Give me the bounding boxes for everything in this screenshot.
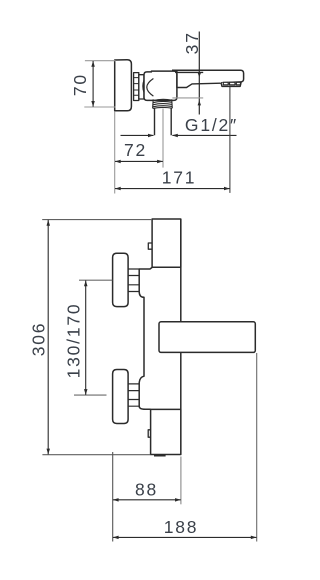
extension line: wall plane (front view) [112,452,114,542]
svg-text:188: 188 [164,517,199,537]
svg-text:306: 306 [29,322,49,357]
thread block upper [127,269,139,292]
dimension 188 [113,536,257,538]
dimension 171 [115,188,230,190]
dimension 72 [115,160,163,162]
extension line: spout front edge down [256,353,258,542]
dimension 37 [198,32,200,115]
svg-text:72: 72 [124,140,147,160]
wall flange lower (front view) [113,370,129,424]
union nut (top view) [134,73,139,101]
extension line: bottom of faucet (306) [42,454,150,456]
dimension 70 [92,61,94,107]
body left bulge arc [143,80,144,92]
wall flange (top view) [115,60,132,111]
dimension G1/2 [121,134,237,136]
dimension 88 [113,499,181,501]
extension line: flange bottom (70) [84,106,115,108]
column right edge [180,219,182,455]
extension line: spout outlet leader [229,87,231,193]
svg-text:171: 171 [162,167,197,187]
shower outlet stub (bottom) [154,454,166,456]
extension line: pipe centerline [162,109,164,168]
adapter ring (top view) [139,75,144,99]
thread block lower [127,384,139,406]
body outline left (upper S) [139,267,152,409]
extension line: top of faucet (306) [42,219,152,221]
dimension 130/170 [85,280,87,395]
extension line: column right edge down [180,457,182,505]
valve body (top view) [144,71,177,100]
extension line: wall plane (top view) [114,111,116,193]
flow handle (bottom) [151,409,181,454]
wall flange upper (front view) [113,253,129,306]
shower outlet threads (top view) [153,99,173,108]
spout tube (front view) [159,322,255,353]
svg-text:130/170: 130/170 [64,303,84,379]
temperature handle (top) [152,219,181,267]
handle tab (top) [148,243,152,249]
svg-text:37: 37 [182,31,202,54]
svg-text:88: 88 [135,480,158,500]
spout chamfer line [175,71,203,73]
svg-text:70: 70 [70,73,90,96]
extension line: lower union axis [74,394,107,396]
dimension 306 [47,220,49,455]
extension line: upper union axis [79,279,112,281]
extension line for 37 bottom [172,97,203,99]
spout underside [177,70,221,87]
shower pipe (top view) [155,108,172,135]
handle tab (bottom) [148,430,150,437]
extension line: flange top (70) [85,60,116,62]
cartridge dome arc [147,79,154,97]
spout (top view) [172,70,244,83]
aerator at spout tip [221,82,241,87]
